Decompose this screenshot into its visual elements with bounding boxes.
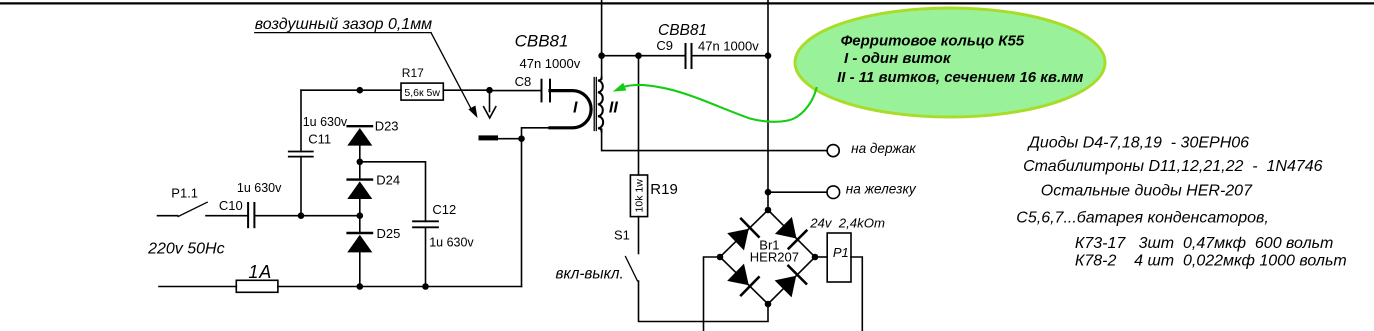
node riser bbox=[518, 135, 525, 142]
node spark/C8 bbox=[486, 87, 493, 94]
wire transformer secondary bottom to держак terminal bbox=[602, 129, 827, 151]
svg-text:1u 630v: 1u 630v bbox=[429, 236, 474, 250]
wire C12 bottom bbox=[425, 227, 427, 286]
svg-text:D23: D23 bbox=[375, 118, 399, 133]
bridge diode top-right bbox=[775, 217, 807, 249]
svg-text:вкл-выкл.: вкл-выкл. bbox=[556, 265, 624, 282]
capacitor C10 bbox=[248, 203, 254, 227]
svg-text:C8: C8 bbox=[515, 74, 532, 89]
wire C11 lower bbox=[300, 157, 302, 216]
fuse box 1A bbox=[236, 280, 278, 292]
capacitor C9 bbox=[686, 44, 692, 68]
diode D25 bbox=[347, 233, 372, 252]
node bridge top bbox=[765, 207, 772, 214]
green arrowhead bbox=[613, 83, 627, 92]
node diode column top bbox=[357, 87, 364, 94]
bottom rail left bbox=[159, 286, 236, 288]
svg-text:Диоды D4-7,18,19 - 30EPH06: Диоды D4-7,18,19 - 30EPH06 bbox=[1027, 135, 1250, 152]
svg-text:C12: C12 bbox=[432, 202, 456, 217]
wire C12 top branch bbox=[360, 162, 426, 222]
bridge diode top-left bbox=[727, 219, 759, 251]
resistor R19 box bbox=[630, 175, 647, 217]
svg-text:C9: C9 bbox=[656, 38, 673, 53]
wire to железку terminal bbox=[768, 191, 827, 193]
wire top node row left of C9 bbox=[602, 55, 686, 57]
wire R19 to S1 bbox=[638, 217, 640, 254]
svg-text:Остальные диоды HER-207: Остальные диоды HER-207 bbox=[1041, 182, 1253, 199]
relay P1 box bbox=[827, 233, 851, 282]
svg-text:К73-17 3шт 0,47мкф 600 вол: К73-17 3шт 0,47мкф 600 вольт bbox=[1075, 235, 1333, 252]
svg-text:СВВ81: СВВ81 bbox=[658, 22, 707, 39]
spark gap electrode bar bbox=[479, 135, 499, 140]
svg-text:1u 630v: 1u 630v bbox=[237, 181, 282, 195]
wire feeder left (top to transformer secondary top) bbox=[601, 0, 603, 79]
wire feeder right (top to bridge top) bbox=[767, 0, 769, 210]
wire mains left stub bbox=[158, 215, 178, 217]
transformer secondary winding II bbox=[598, 78, 603, 132]
bridge edge bottom-right bbox=[768, 257, 815, 304]
svg-text:D24: D24 bbox=[376, 173, 400, 188]
node bridge left bbox=[717, 254, 724, 261]
svg-text:47n 1000v: 47n 1000v bbox=[698, 38, 759, 53]
spark gap arrowhead V bbox=[484, 107, 496, 118]
node железку tap bbox=[765, 189, 772, 196]
svg-text:I: I bbox=[573, 99, 578, 116]
terminal circle держак bbox=[827, 145, 839, 157]
svg-text:воздушный зазор 0,1мм: воздушный зазор 0,1мм bbox=[255, 16, 432, 33]
node bridge bottom bbox=[765, 301, 772, 308]
wire S1 bottom to bridge bottom bbox=[639, 281, 769, 322]
sheet top border bbox=[0, 2, 1374, 4]
bridge edge bottom-left bbox=[720, 257, 768, 304]
svg-text:К78-2 4 шт 0,022мкф 1000 в: К78-2 4 шт 0,022мкф 1000 вольт bbox=[1075, 253, 1347, 270]
node at C9 right bbox=[765, 52, 772, 59]
capacitor C8 bbox=[542, 80, 551, 102]
annotation arrow line bbox=[431, 33, 473, 112]
switch S1 blade bbox=[626, 257, 638, 282]
capacitor C12 bbox=[413, 221, 438, 227]
svg-text:S1: S1 bbox=[614, 227, 630, 242]
svg-text:С5,6,7...батарея конденсаторов: С5,6,7...батарея конденсаторов, bbox=[1016, 209, 1269, 226]
spark gap electrode stem bbox=[489, 90, 491, 111]
annotation arrowhead bbox=[468, 106, 477, 119]
svg-text:СВВ81: СВВ81 bbox=[515, 32, 569, 51]
terminal circle железку bbox=[827, 186, 840, 199]
annotation underline bbox=[255, 32, 431, 34]
svg-text:P1: P1 bbox=[833, 245, 849, 260]
wire electrode to riser bbox=[498, 138, 522, 140]
svg-text:C11: C11 bbox=[308, 131, 331, 146]
svg-text:Ферритовое кольцо К55: Ферритовое кольцо К55 bbox=[841, 33, 1025, 50]
wire relay right down bbox=[851, 257, 862, 331]
svg-text:II - 11 витков, сечением 16 кв: II - 11 витков, сечением 16 кв.мм bbox=[837, 69, 1083, 86]
resistor R17 box bbox=[401, 83, 443, 100]
wire C8 left bbox=[490, 90, 542, 92]
svg-text:24v 2,4kOm: 24v 2,4kOm bbox=[809, 215, 885, 230]
wire top-left row bbox=[301, 89, 401, 91]
bridge diode bottom-right bbox=[774, 266, 806, 298]
wire R17 to spark node bbox=[443, 89, 489, 91]
svg-text:5,6к 5w: 5,6к 5w bbox=[404, 87, 440, 99]
node at C9 left bbox=[598, 52, 605, 59]
wire R19 drop upper bbox=[638, 56, 640, 175]
svg-text:10k 1w: 10k 1w bbox=[634, 179, 646, 213]
switch P1.1 blade bbox=[178, 202, 207, 216]
node C12 bottom bbox=[422, 283, 429, 290]
transformer core line 2 bbox=[595, 78, 597, 131]
wire bridge left to down bbox=[704, 257, 721, 331]
svg-text:HER207: HER207 bbox=[750, 250, 799, 265]
svg-text:II: II bbox=[609, 99, 618, 116]
node bridge right bbox=[812, 254, 819, 261]
node D25 bottom bbox=[357, 283, 364, 290]
wire D24-D25 bbox=[359, 199, 361, 232]
transformer primary loop I bbox=[550, 91, 591, 128]
svg-text:1u 630v: 1u 630v bbox=[303, 115, 348, 129]
wire C10 to diode column bbox=[254, 215, 359, 217]
wire D23-D24 bbox=[359, 146, 361, 179]
svg-text:D25: D25 bbox=[377, 226, 401, 241]
svg-text:47n 1000v: 47n 1000v bbox=[520, 56, 581, 71]
bridge edge top-left bbox=[720, 210, 768, 257]
wire P1.1 to C10 bbox=[206, 215, 248, 217]
svg-text:220v 50Hc: 220v 50Hc bbox=[147, 241, 225, 258]
svg-text:R17: R17 bbox=[402, 66, 424, 80]
bridge diode bottom-left bbox=[727, 263, 759, 295]
node D23-D24 junction bbox=[357, 159, 364, 166]
wire riser down to bottom rail bbox=[521, 139, 523, 287]
green callout ellipse bbox=[795, 8, 1105, 117]
svg-text:1A: 1A bbox=[248, 262, 272, 282]
transformer core line 1 bbox=[593, 78, 595, 131]
wire top node row right of C9 bbox=[692, 55, 769, 57]
bottom rail right bbox=[278, 286, 522, 288]
svg-text:R19: R19 bbox=[650, 181, 678, 198]
svg-text:Стабилитроны D11,12,21,22 -: Стабилитроны D11,12,21,22 - 1N4746 bbox=[1023, 158, 1323, 175]
wire C11 upper bbox=[300, 90, 302, 151]
diode D24 bbox=[347, 180, 372, 199]
node D24-D25 junction bbox=[357, 212, 364, 219]
wire bridge right to relay bbox=[815, 256, 827, 258]
wire D25 bottom bbox=[359, 252, 361, 286]
svg-text:P1.1: P1.1 bbox=[171, 186, 198, 201]
svg-text:C10: C10 bbox=[219, 198, 243, 213]
svg-text:I - один виток: I - один виток bbox=[844, 50, 952, 67]
svg-text:на железку: на железку bbox=[846, 181, 917, 196]
capacitor C11 bbox=[289, 152, 313, 157]
svg-text:на держак: на держак bbox=[851, 141, 916, 156]
wire riser up to primary bottom bbox=[522, 128, 551, 139]
node R19 tap bbox=[635, 52, 642, 59]
bridge edge top-right bbox=[768, 210, 815, 257]
diode D23 bbox=[347, 126, 372, 145]
node C11 bottom bbox=[298, 212, 305, 219]
green arrow curve bbox=[623, 85, 817, 122]
